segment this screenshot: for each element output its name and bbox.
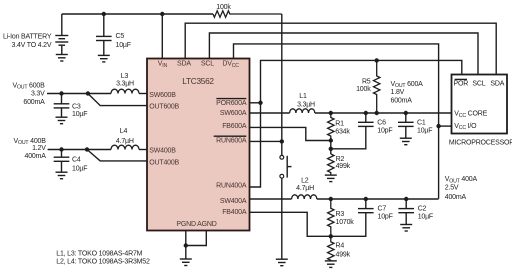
svg-text:3.3µH: 3.3µH <box>297 102 315 109</box>
svg-text:VOUT 600B: VOUT 600B <box>12 83 45 91</box>
svg-text:100k: 100k <box>356 86 371 93</box>
wire SW600A / VCC CORE line <box>250 112 452 114</box>
wire POR600A pin stub <box>250 102 261 104</box>
svg-text:RUN600A: RUN600A <box>216 137 247 144</box>
svg-text:POR600A: POR600A <box>216 100 247 107</box>
svg-text:C5: C5 <box>116 33 125 40</box>
node L1/R1/VOUT600A <box>329 111 333 115</box>
svg-text:Li-Ion BATTERY: Li-Ion BATTERY <box>3 34 52 41</box>
capacitor C1 <box>398 113 414 138</box>
node OUT600B split <box>86 91 90 95</box>
svg-text:SW600B: SW600B <box>149 92 176 99</box>
capacitor C2 <box>398 199 414 224</box>
svg-text:400mA: 400mA <box>25 153 47 160</box>
wire RUN600A <box>250 140 282 142</box>
resistor R4 <box>328 236 334 260</box>
IC U1 LTC3562 body <box>147 59 250 231</box>
wire SW400B <box>139 149 147 151</box>
node RUN600A junction <box>280 139 284 143</box>
svg-text:10µF: 10µF <box>72 111 87 118</box>
svg-text:R1: R1 <box>335 121 344 128</box>
svg-text:L1, L3: TOKO 1098AS-4R7M: L1, L3: TOKO 1098AS-4R7M <box>56 251 142 258</box>
capacitor C3 <box>54 94 70 118</box>
wire FB400A <box>250 212 331 236</box>
svg-text:10pF: 10pF <box>377 128 392 135</box>
wire VIN pin drop <box>161 14 163 59</box>
wire R1/R2 link <box>330 141 332 155</box>
svg-text:FB400A: FB400A <box>222 209 247 216</box>
svg-text:400mA: 400mA <box>445 194 467 201</box>
capacitor C5 <box>96 14 112 55</box>
svg-text:C1: C1 <box>417 119 426 126</box>
node VIN/C5 junction <box>102 12 106 16</box>
svg-text:RUN400A: RUN400A <box>216 182 247 189</box>
node C1 top <box>404 111 408 115</box>
node C2 top <box>404 197 408 201</box>
node L2/R3/VOUT400A <box>329 197 333 201</box>
capacitor C7 <box>331 199 374 236</box>
svg-text:SW400A: SW400A <box>220 198 247 205</box>
ground (battery) <box>56 55 68 62</box>
svg-text:3.4V TO 4.2V: 3.4V TO 4.2V <box>12 42 52 49</box>
svg-text:SCL: SCL <box>201 61 214 68</box>
node OUT400B split <box>85 147 89 151</box>
node C6 return junction <box>329 147 333 151</box>
svg-text:3.3µH: 3.3µH <box>116 80 134 87</box>
wire AGND <box>186 231 207 246</box>
wire SDA <box>185 23 496 74</box>
ground (R2) <box>325 175 337 182</box>
pushbutton S1 <box>280 155 292 178</box>
svg-text:1.2V: 1.2V <box>32 145 46 152</box>
resistor R5 <box>374 60 380 113</box>
svg-text:SDA: SDA <box>490 81 504 88</box>
node R5 bottom <box>375 111 379 115</box>
svg-text:10µF: 10µF <box>417 128 432 135</box>
svg-text:SW400B: SW400B <box>149 148 176 155</box>
node C4 junction <box>59 147 63 151</box>
svg-text:10pF: 10pF <box>378 214 393 221</box>
svg-text:C4: C4 <box>72 157 81 164</box>
svg-text:R3: R3 <box>336 211 345 218</box>
ground (C4) <box>56 172 68 179</box>
svg-text:499k: 499k <box>336 251 351 258</box>
svg-text:C3: C3 <box>72 103 81 110</box>
inductor L1 <box>290 109 315 113</box>
wire pushbutton to ground <box>281 178 283 259</box>
pin POR600A label <box>216 99 247 107</box>
inductor L4 <box>111 145 139 149</box>
pin POR (micro) label <box>454 79 469 87</box>
wire VIN top rail <box>62 13 213 15</box>
svg-text:10µF: 10µF <box>418 214 433 221</box>
svg-text:MICROPROCESSOR: MICROPROCESSOR <box>449 139 512 146</box>
svg-text:POR: POR <box>454 81 469 88</box>
node C6 top <box>364 111 368 115</box>
svg-text:L2: L2 <box>301 178 309 185</box>
ground (R4) <box>325 261 337 268</box>
ground (C2) <box>400 225 412 232</box>
svg-text:VCC I/O: VCC I/O <box>454 123 477 131</box>
node C7 top <box>364 197 368 201</box>
svg-text:C6: C6 <box>377 119 386 126</box>
svg-text:499k: 499k <box>336 163 351 170</box>
svg-text:100k: 100k <box>216 4 231 11</box>
ground (C5) <box>98 55 110 62</box>
node PGND/AGND junction <box>184 243 188 247</box>
svg-text:600mA: 600mA <box>391 97 413 104</box>
svg-text:VCC CORE: VCC CORE <box>454 111 487 119</box>
wire VOUT400B <box>48 149 111 151</box>
svg-text:OUT600B: OUT600B <box>149 104 179 111</box>
ground (PGND) <box>180 259 192 266</box>
svg-text:2.5V: 2.5V <box>445 185 459 192</box>
wire DVCC <box>234 44 439 199</box>
pin RUN600A label <box>214 136 247 144</box>
svg-text:FB600A: FB600A <box>222 123 247 130</box>
wire POR600A net <box>250 60 462 187</box>
svg-text:R2: R2 <box>336 156 345 163</box>
svg-text:10µF: 10µF <box>116 42 131 49</box>
wire PGND <box>185 231 187 259</box>
resistor R2 <box>328 154 334 175</box>
wire OUT400B <box>87 150 147 161</box>
wire SW400A / VOUT400A line <box>250 198 439 200</box>
ground (C1) <box>400 138 412 145</box>
ground (C3) <box>56 117 68 124</box>
svg-text:VOUT 400A: VOUT 400A <box>445 176 478 184</box>
wire FB600A <box>250 127 331 140</box>
svg-text:LTC3562: LTC3562 <box>182 76 214 86</box>
node VIN pin junction <box>160 12 164 16</box>
inductor L3 <box>111 89 139 93</box>
svg-text:SW600A: SW600A <box>220 110 247 117</box>
resistor R3 <box>328 199 334 236</box>
microprocessor U2 box <box>452 75 508 134</box>
battery Li-Ion <box>55 14 68 54</box>
capacitor C6 <box>331 113 374 149</box>
wire RUN pull-up vertical <box>281 14 283 155</box>
svg-text:L1: L1 <box>299 93 307 100</box>
wire VCC I/O stub <box>439 125 452 127</box>
svg-text:L4: L4 <box>120 128 128 135</box>
svg-text:1.8V: 1.8V <box>391 89 405 96</box>
svg-text:L2, L4: TOKO 1098AS-3R3M52: L2, L4: TOKO 1098AS-3R3M52 <box>56 259 150 266</box>
node R5 top <box>375 58 379 62</box>
svg-text:10µF: 10µF <box>72 166 87 173</box>
wire SW600B <box>139 93 147 95</box>
svg-text:600mA: 600mA <box>23 99 45 106</box>
node DVCC/VCC I/O junction <box>436 124 440 128</box>
svg-text:SDA: SDA <box>177 61 191 68</box>
svg-text:PGND AGND: PGND AGND <box>176 221 216 228</box>
node FB400A junction <box>329 234 333 238</box>
svg-text:1070k: 1070k <box>336 219 355 226</box>
node POR600A junction <box>258 101 262 105</box>
ground (pushbutton) <box>276 259 288 266</box>
node FB600A junction <box>329 138 333 142</box>
svg-text:3.3V: 3.3V <box>31 91 45 98</box>
capacitor C4 <box>54 150 70 173</box>
svg-text:4.7µH: 4.7µH <box>296 185 314 192</box>
svg-text:OUT400B: OUT400B <box>149 160 179 167</box>
svg-text:L3: L3 <box>121 73 129 80</box>
svg-text:R5: R5 <box>362 79 371 86</box>
inductor L2 <box>292 195 317 199</box>
svg-text:4.7µH: 4.7µH <box>116 138 134 145</box>
svg-text:VIN: VIN <box>158 61 168 69</box>
resistor 100k pull-up <box>213 11 282 17</box>
svg-text:C2: C2 <box>418 205 427 212</box>
wire OUT600B <box>88 94 147 106</box>
svg-text:C7: C7 <box>378 205 387 212</box>
wire SCL <box>209 33 478 75</box>
node C3 junction <box>59 91 63 95</box>
svg-text:R4: R4 <box>336 243 345 250</box>
svg-text:SCL: SCL <box>472 81 485 88</box>
svg-text:DVCC: DVCC <box>222 61 239 69</box>
resistor R1 <box>328 113 334 141</box>
wire VOUT600B <box>47 93 111 95</box>
svg-text:634k: 634k <box>335 129 350 136</box>
